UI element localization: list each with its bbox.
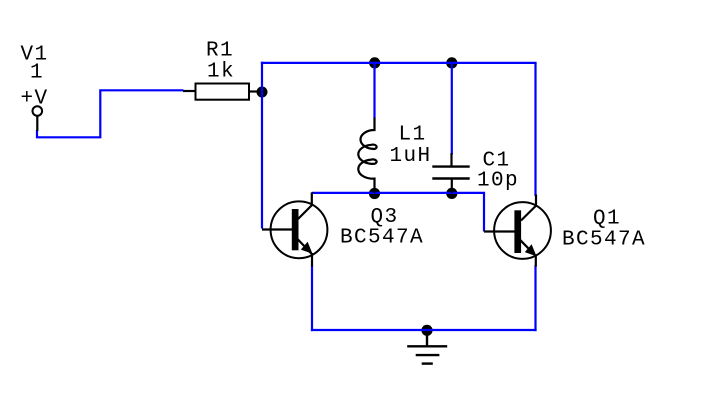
wire Q1 base drop (483, 193, 485, 232)
svg-text:R1: R1 (206, 40, 234, 63)
ground (407, 331, 447, 364)
wire bottom rail (311, 329, 537, 331)
svg-text:L1: L1 (399, 124, 427, 147)
junction node R1-out (257, 87, 268, 98)
svg-text:Q1: Q1 (593, 208, 621, 231)
wire Q1 emitter drop (534, 265, 536, 331)
transistor Q3 (262, 192, 327, 266)
svg-text:BC547A: BC547A (562, 229, 646, 252)
wire L1 top drop (373, 63, 375, 118)
terminal V1 (33, 106, 43, 116)
resistor R1 (183, 90, 195, 92)
junction node L1-bottom (369, 188, 380, 199)
wire C1 top drop (451, 63, 453, 155)
svg-text:10p: 10p (477, 169, 519, 192)
junction node L1-top (369, 57, 380, 68)
capacitor C1 (450, 153, 452, 167)
junction node ground (421, 325, 432, 336)
svg-text:1uH: 1uH (390, 145, 432, 168)
wire right drop to Q1 collector (534, 63, 536, 196)
wire top rail (261, 62, 537, 64)
inductor L1 (358, 118, 376, 194)
junction node C1-top (446, 57, 457, 68)
junction node C1-bottom (446, 188, 457, 199)
svg-text:1k: 1k (207, 61, 235, 84)
svg-text:1: 1 (30, 62, 44, 85)
wire R1-out vertical (261, 62, 263, 229)
svg-text:+V: +V (21, 88, 49, 111)
wire V1 riser (37, 90, 184, 137)
transistor Q1 (484, 195, 551, 267)
svg-text:BC547A: BC547A (340, 227, 424, 250)
wire Q3 emitter drop (311, 266, 313, 332)
wire mid rail (312, 192, 485, 194)
